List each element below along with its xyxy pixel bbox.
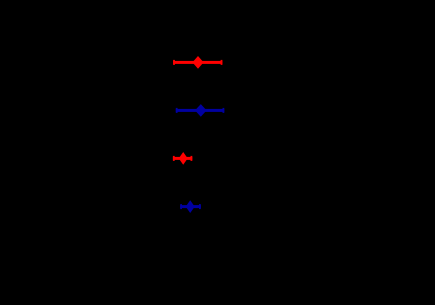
errorbar point 2 (blue, wide) xyxy=(176,104,225,117)
left cap xyxy=(173,156,175,161)
errorbar point 4 (blue, narrow) xyxy=(180,200,201,213)
right cap xyxy=(221,60,223,65)
errorbar point 1 (red, wide) xyxy=(173,56,222,69)
left cap xyxy=(173,60,175,65)
left cap xyxy=(180,204,182,209)
right cap xyxy=(199,204,201,209)
diamond marker xyxy=(192,56,203,69)
wire: horizontal error line xyxy=(173,157,192,160)
right cap xyxy=(191,156,193,161)
wire: horizontal error line xyxy=(180,205,201,208)
diamond marker xyxy=(195,104,207,117)
left cap xyxy=(176,108,178,113)
wire: horizontal error line xyxy=(176,109,225,112)
right cap xyxy=(223,108,225,113)
diamond marker xyxy=(179,152,188,165)
wire: horizontal error line xyxy=(173,61,222,64)
diamond marker xyxy=(186,200,195,213)
errorbar point 3 (red, narrow) xyxy=(173,152,192,165)
